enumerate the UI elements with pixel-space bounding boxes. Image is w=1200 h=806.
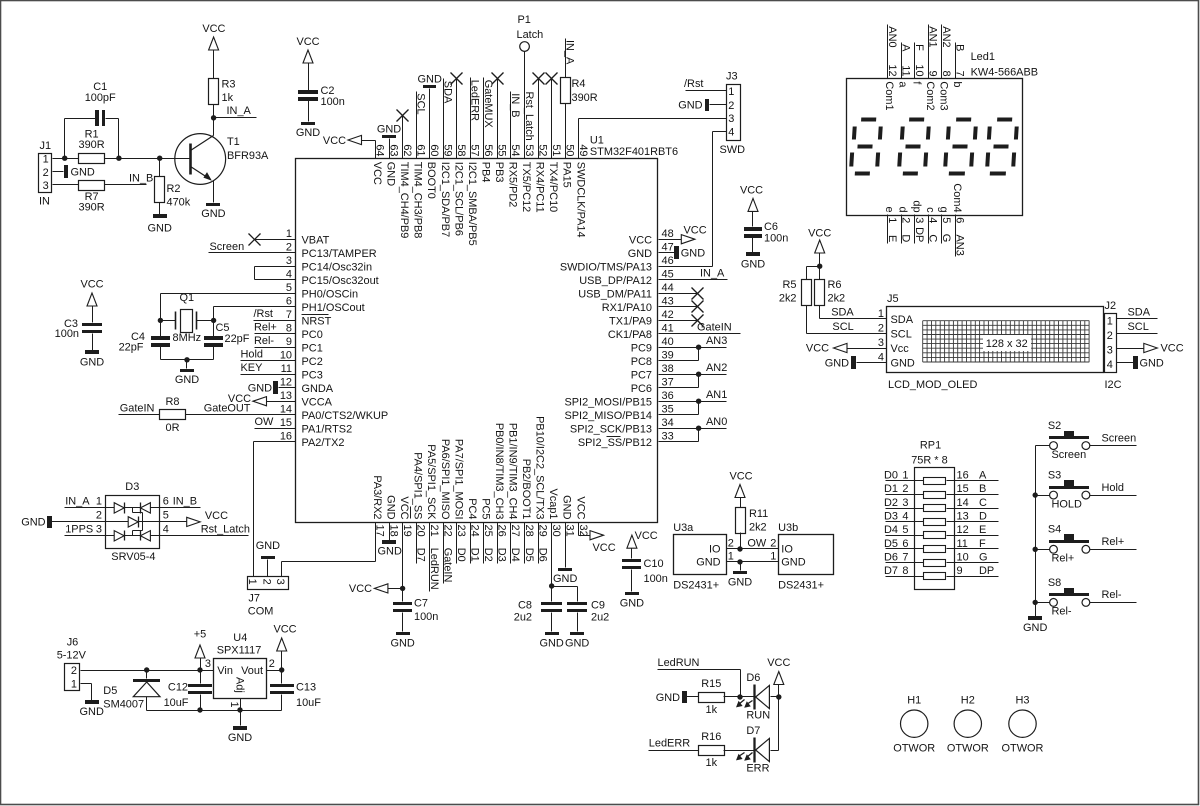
- net SDA wire R6 to J5 pin 1: [820, 306, 887, 319]
- svg-text:2: 2: [899, 217, 911, 223]
- net IN_A stub on U1 pin 45: [659, 267, 728, 279]
- svg-text:1k: 1k: [706, 757, 718, 769]
- ground below R2: [148, 214, 172, 235]
- svg-text:D5: D5: [103, 685, 117, 697]
- svg-text:PB10/I2C2_SCL/TX3: PB10/I2C2_SCL/TX3: [534, 416, 546, 519]
- net LedERR wire: [649, 738, 699, 751]
- svg-text:VCC: VCC: [729, 471, 752, 483]
- svg-text:P1: P1: [518, 14, 531, 26]
- svg-text:7: 7: [286, 309, 292, 321]
- connector J1 IN: [39, 140, 52, 207]
- U1 pin 58 stub with no-connect X: [451, 73, 463, 159]
- svg-text:VBAT: VBAT: [302, 234, 330, 246]
- svg-text:TIM4_CH3/PB8: TIM4_CH3/PB8: [412, 162, 424, 239]
- svg-text:PH0/OSCin: PH0/OSCin: [302, 288, 359, 300]
- wire R15 to D6: [724, 696, 755, 698]
- net D4 stub on U1 pin 27: [509, 523, 521, 564]
- net Hold from S3: [1090, 482, 1137, 496]
- svg-text:SDA: SDA: [1128, 306, 1151, 318]
- svg-text:1: 1: [886, 217, 898, 223]
- net G from Led1 pin 5: [937, 207, 952, 244]
- svg-text:100n: 100n: [414, 611, 438, 623]
- svg-text:PC7: PC7: [631, 369, 652, 381]
- svg-text:D: D: [979, 511, 987, 523]
- svg-text:SDA: SDA: [441, 81, 453, 104]
- svg-text:8: 8: [902, 565, 908, 577]
- svg-text:6: 6: [902, 538, 908, 550]
- svg-text:Rel-: Rel-: [1102, 589, 1122, 601]
- ground into R15: [656, 691, 699, 704]
- RP1 element D4 to E: [884, 524, 998, 538]
- mounting hole H2 OTWOR: [947, 695, 989, 755]
- svg-text:2: 2: [96, 509, 102, 521]
- svg-text:VCC: VCC: [629, 234, 652, 246]
- capacitor C8 2u2: [514, 600, 564, 650]
- svg-text:Adj: Adj: [234, 677, 246, 693]
- ground into J5 pin 4: [825, 356, 887, 369]
- svg-text:IN_A: IN_A: [65, 495, 90, 507]
- svg-text:SCL: SCL: [1128, 321, 1149, 333]
- svg-text:PC14/Osc32in: PC14/Osc32in: [302, 261, 373, 273]
- ground on J1 pin 2: [53, 165, 95, 178]
- power VCC arrow on U1 pin 48: [659, 225, 707, 244]
- U1 bottom pin numbers and names (pins 17-32): [371, 416, 589, 537]
- svg-text:VCC: VCC: [1161, 343, 1184, 355]
- svg-text:LedRUN: LedRUN: [428, 548, 440, 590]
- svg-text:PB2/BOOT1: PB2/BOOT1: [520, 459, 532, 520]
- EEPROM U3b DS2431+: [770, 522, 833, 592]
- svg-text:GND: GND: [296, 127, 320, 139]
- ground on U1 pin 18: [378, 523, 402, 558]
- svg-text:AN0: AN0: [886, 26, 898, 47]
- net DP from Led1 pin 3: [910, 200, 925, 243]
- svg-text:D3: D3: [125, 481, 139, 493]
- svg-text:PC6: PC6: [631, 383, 652, 395]
- svg-text:RX5/PD2: RX5/PD2: [507, 162, 519, 208]
- svg-text:Screen: Screen: [1102, 432, 1137, 444]
- node OW junction: [737, 546, 742, 551]
- wire J6 pin 1 to ground: [81, 684, 92, 701]
- svg-text:GateMUX: GateMUX: [482, 80, 494, 129]
- svg-text:Com2: Com2: [924, 81, 936, 110]
- svg-text:CK1/PA8: CK1/PA8: [608, 329, 652, 341]
- svg-text:GND: GND: [565, 637, 589, 649]
- net Rel- to U1 pin 9: [254, 335, 296, 348]
- svg-text:1: 1: [728, 86, 734, 98]
- net LedRUN stub on U1 pin 21: [428, 523, 440, 592]
- node AN3 junction: [696, 345, 701, 350]
- svg-text:4: 4: [1107, 359, 1113, 371]
- RP1 element D1 to B: [884, 483, 998, 498]
- svg-text:T1: T1: [227, 136, 240, 148]
- svg-text:Hold: Hold: [241, 348, 264, 360]
- svg-text:AN3: AN3: [954, 235, 966, 256]
- net D5 stub on U1 pin 28: [523, 523, 535, 564]
- svg-text:GND: GND: [80, 706, 104, 718]
- U1 pin 62 stub with no-connect X: [397, 110, 409, 159]
- resistor R16 1k: [699, 731, 725, 769]
- svg-text:15: 15: [280, 417, 292, 429]
- net /Rst to U1 pin 7: [254, 308, 296, 321]
- svg-text:/Rst: /Rst: [684, 78, 703, 90]
- svg-text:11: 11: [899, 65, 911, 76]
- svg-text:LedRUN: LedRUN: [658, 657, 700, 669]
- wire J6 pin 2 to U4 Vin: [81, 670, 214, 672]
- svg-text:GND: GND: [21, 517, 45, 529]
- svg-text:I2C: I2C: [1105, 379, 1122, 391]
- svg-text:PC1: PC1: [302, 342, 323, 354]
- svg-text:PA3/RX2: PA3/RX2: [371, 475, 383, 519]
- svg-text:4: 4: [878, 352, 884, 364]
- net Screen to U1 pin 2: [209, 241, 296, 253]
- svg-text:SPI2_SS/PB12: SPI2_SS/PB12: [578, 437, 652, 449]
- svg-text:U3b: U3b: [778, 522, 798, 534]
- svg-text:100n: 100n: [764, 233, 788, 245]
- capacitor C13 10uF: [270, 671, 321, 711]
- net 1PPS into D3 pin 3: [65, 523, 106, 535]
- svg-text:A: A: [899, 44, 911, 52]
- svg-text:S2: S2: [1048, 420, 1061, 432]
- svg-text:2k2: 2k2: [749, 522, 767, 534]
- capacitor C2 100n rail decoupling: [296, 36, 345, 139]
- svg-text:E: E: [886, 235, 898, 242]
- net GateIN stub on U1 pin 41: [659, 321, 741, 333]
- svg-text:2: 2: [770, 538, 776, 550]
- svg-text:GNDA: GNDA: [302, 383, 334, 395]
- net D1 stub on U1 pin 24: [469, 523, 481, 564]
- svg-text:I2C1_SCL/PB6: I2C1_SCL/PB6: [452, 162, 464, 236]
- svg-text:TX5/PC12: TX5/PC12: [520, 162, 532, 212]
- net D from Led1 pin 2: [897, 207, 912, 244]
- svg-text:36: 36: [662, 390, 674, 402]
- resistor R7 390R: [79, 181, 105, 214]
- display Led1 KW4-566ABB body: [847, 51, 1039, 216]
- net IN_A stub at T1 collector: [214, 105, 257, 117]
- power +5 arrow at U4 input: [194, 628, 206, 670]
- svg-text:DS2431+: DS2431+: [673, 580, 719, 592]
- svg-text:R3: R3: [222, 78, 236, 90]
- net AN0 from U1 pins 34 and 33: [659, 416, 728, 442]
- svg-text:IO: IO: [781, 544, 793, 556]
- svg-text:SPI2_MOSI/PB15: SPI2_MOSI/PB15: [564, 396, 652, 408]
- svg-text:11: 11: [281, 363, 292, 375]
- svg-text:2: 2: [261, 579, 273, 585]
- resistor network RP1 75R*8 body: [911, 440, 954, 590]
- ground on J3 pin 2: [678, 99, 726, 112]
- wire C1 left leg: [65, 119, 96, 159]
- MCU U1 STM32F401RBT6 body: [296, 135, 679, 523]
- net Rel+ to U1 pin 8: [254, 321, 296, 333]
- svg-text:VCC: VCC: [808, 228, 831, 240]
- svg-text:R16: R16: [701, 731, 721, 743]
- svg-text:1: 1: [71, 678, 77, 690]
- capacitor C10 100n: [620, 530, 668, 610]
- svg-text:Rel+: Rel+: [1052, 553, 1075, 565]
- net A into Led1 pin 11: [897, 43, 912, 89]
- RP1 element D2 to C: [884, 497, 998, 512]
- power VCC above R11: [729, 471, 752, 509]
- svg-text:33: 33: [662, 431, 674, 443]
- net D7 stub on U1 pin 20: [414, 523, 426, 564]
- svg-text:2: 2: [728, 538, 734, 550]
- svg-text:AN3: AN3: [706, 335, 727, 347]
- node C7 junction: [400, 586, 405, 591]
- node D5 top junction: [144, 667, 149, 672]
- wire U1 pin 16 to J7 pin 1: [254, 442, 296, 577]
- svg-text:34: 34: [662, 417, 674, 429]
- svg-text:D3: D3: [496, 548, 508, 562]
- svg-text:22pF: 22pF: [119, 342, 144, 354]
- svg-text:IN_A: IN_A: [564, 40, 576, 65]
- svg-text:D2: D2: [482, 548, 494, 562]
- power VCC above R3: [202, 23, 225, 79]
- svg-text:16: 16: [957, 470, 969, 482]
- svg-text:GND: GND: [656, 692, 680, 704]
- svg-text:6: 6: [954, 217, 966, 223]
- svg-text:Rst_Latch: Rst_Latch: [523, 92, 535, 141]
- U1 pin 1 stub wire with no-connect X: [249, 234, 296, 246]
- wire T1 collector to IN_A node: [213, 118, 215, 136]
- svg-text:S8: S8: [1048, 577, 1061, 589]
- svg-text:PC3: PC3: [302, 369, 323, 381]
- svg-text:10: 10: [913, 64, 925, 76]
- net SCL from J2 pin 2: [1117, 321, 1158, 334]
- svg-text:4: 4: [286, 269, 292, 281]
- svg-text:VCC: VCC: [296, 36, 319, 48]
- svg-text:GND: GND: [681, 248, 705, 260]
- svg-text:13: 13: [957, 511, 969, 523]
- svg-text:D6: D6: [746, 672, 760, 684]
- D3 internal diodes: [106, 503, 161, 542]
- net AN1 into Led1 pin 9: [924, 25, 939, 111]
- svg-text:48: 48: [662, 228, 674, 240]
- svg-text:4: 4: [728, 127, 734, 139]
- RP1 element D3 to D: [884, 511, 998, 526]
- svg-text:100n: 100n: [321, 96, 345, 108]
- svg-text:3: 3: [913, 217, 925, 223]
- wire U1 pin 17 to J7 pin 3: [282, 523, 376, 577]
- svg-text:E: E: [979, 524, 986, 536]
- svg-text:C13: C13: [296, 682, 316, 694]
- svg-text:OTWOR: OTWOR: [893, 743, 935, 755]
- svg-text:GND: GND: [248, 383, 272, 395]
- wire R3 to collector node: [213, 105, 215, 118]
- svg-text:PC5: PC5: [479, 498, 491, 519]
- svg-text:2: 2: [902, 483, 908, 495]
- svg-text:PA15: PA15: [561, 162, 573, 188]
- svg-text:TX4/PC10: TX4/PC10: [547, 162, 559, 212]
- resistor R3 1k: [209, 78, 236, 104]
- node S4 common junction: [1033, 547, 1038, 552]
- svg-text:GateOUT: GateOUT: [204, 402, 251, 414]
- svg-text:10uF: 10uF: [296, 697, 321, 709]
- svg-text:45: 45: [662, 269, 674, 281]
- svg-text:1PPS: 1PPS: [65, 523, 93, 535]
- svg-text:SDA: SDA: [831, 306, 854, 318]
- wire R11 to OW node: [740, 533, 742, 549]
- net Rst_Latch from D3 pin 4: [161, 523, 250, 535]
- svg-text:9: 9: [957, 565, 963, 577]
- svg-text:SDA: SDA: [891, 314, 914, 326]
- svg-text:42: 42: [662, 309, 674, 321]
- svg-text:VCC: VCC: [371, 162, 383, 185]
- svg-text:GND: GND: [201, 208, 225, 220]
- svg-text:2k2: 2k2: [828, 292, 846, 304]
- svg-text:6: 6: [163, 495, 169, 507]
- capacitor C4 22pF: [119, 331, 170, 353]
- svg-text:C: C: [927, 234, 939, 242]
- svg-text:NRST: NRST: [302, 315, 332, 327]
- svg-text:D4: D4: [509, 548, 521, 562]
- svg-text:AN1: AN1: [927, 26, 939, 47]
- net E from Led1 pin 1: [883, 207, 898, 244]
- svg-text:VCC: VCC: [593, 542, 616, 554]
- net SDA from J2 pin 1: [1117, 306, 1158, 318]
- net AN0 into Led1 pin 12: [883, 25, 898, 111]
- net OW wire U3a pin 2 to U3b pin 2: [727, 538, 779, 550]
- net Screen from S2: [1090, 432, 1137, 445]
- net B into Led1 pin 7: [951, 43, 966, 88]
- resistor R5 2k2: [779, 279, 812, 306]
- net LedRUN wire: [658, 657, 741, 697]
- svg-text:PA6/SPI1_MISO: PA6/SPI1_MISO: [439, 439, 451, 520]
- svg-text:VCC: VCC: [80, 279, 103, 291]
- svg-text:J2: J2: [1105, 300, 1117, 312]
- net IN_A wire above R4 to U1 pin 50: [564, 39, 576, 159]
- svg-text:15: 15: [957, 483, 969, 495]
- svg-text:SCL: SCL: [891, 329, 912, 341]
- net KEY to U1 pin 11: [241, 362, 296, 375]
- net Rst_Latch wire P1 to U1 pin 53: [523, 52, 535, 159]
- svg-text:SWDIO/TMS/PA13: SWDIO/TMS/PA13: [560, 261, 652, 273]
- svg-text:GateIN: GateIN: [120, 402, 155, 414]
- svg-text:TIM4_CH4/PB9: TIM4_CH4/PB9: [398, 162, 410, 239]
- svg-text:VCC: VCC: [684, 225, 707, 237]
- svg-text:8: 8: [286, 323, 292, 335]
- svg-text:I2C1_SDA/PB7: I2C1_SDA/PB7: [439, 162, 451, 237]
- mounting hole H1 OTWOR: [893, 695, 935, 755]
- svg-text:ERR: ERR: [746, 763, 769, 775]
- svg-text:GND: GND: [825, 357, 849, 369]
- svg-text:PA1/RTS2: PA1/RTS2: [302, 423, 353, 435]
- svg-text:5: 5: [902, 524, 908, 536]
- svg-text:C10: C10: [644, 558, 664, 570]
- wire U1 pin 5 to crystal left node: [161, 294, 296, 337]
- U1 pin 43 stub with no-connect X: [659, 301, 704, 313]
- svg-text:R4: R4: [572, 78, 586, 90]
- svg-text:c: c: [924, 207, 936, 213]
- svg-text:38: 38: [662, 363, 674, 375]
- resistor R2 470k: [155, 177, 191, 209]
- ground on U1 pin 31: [553, 523, 577, 585]
- svg-text:SPI2_MISO/PB14: SPI2_MISO/PB14: [564, 410, 652, 422]
- net D2 stub on U1 pin 25: [482, 523, 494, 564]
- ground for crystal: [175, 369, 199, 386]
- node AN2 junction: [696, 372, 701, 377]
- svg-text:SM4007: SM4007: [103, 698, 144, 710]
- svg-text:DS2431+: DS2431+: [778, 580, 824, 592]
- mounting hole H3 OTWOR: [1002, 695, 1044, 755]
- svg-text:GND: GND: [553, 573, 577, 585]
- svg-text:SWDCLK/PA14: SWDCLK/PA14: [574, 162, 586, 238]
- svg-text:10: 10: [280, 350, 292, 362]
- wire R16 to D7: [724, 750, 755, 752]
- svg-text:OW: OW: [747, 538, 767, 550]
- svg-text:HOLD: HOLD: [1052, 498, 1082, 510]
- svg-text:Led1: Led1: [971, 51, 995, 63]
- svg-text:USB_DP/PA12: USB_DP/PA12: [579, 275, 652, 287]
- svg-text:Rel+: Rel+: [1102, 536, 1125, 548]
- svg-text:9: 9: [927, 71, 939, 77]
- svg-text:3: 3: [43, 180, 49, 192]
- svg-text:AN2: AN2: [706, 362, 727, 374]
- svg-text:2u2: 2u2: [591, 611, 609, 623]
- wire T1 emitter to ground: [213, 181, 215, 203]
- LED D7 ERR: [736, 697, 779, 775]
- svg-text:GND: GND: [620, 598, 644, 610]
- svg-text:D6: D6: [884, 551, 898, 563]
- svg-text:AN1: AN1: [706, 389, 727, 401]
- node R2 base junction: [157, 156, 162, 161]
- svg-text:BOOT0: BOOT0: [425, 162, 437, 199]
- svg-text:1: 1: [96, 495, 102, 507]
- svg-text:+5: +5: [194, 628, 206, 640]
- svg-text:KW4-566ABB: KW4-566ABB: [971, 67, 1038, 79]
- RP1 element D0 to A: [884, 470, 998, 485]
- svg-text:U3a: U3a: [673, 522, 694, 534]
- svg-text:R8: R8: [166, 396, 180, 408]
- net Vcap1 node on U1 pin 30: [552, 523, 578, 602]
- capacitor C3 100n rail decoupling: [55, 279, 105, 369]
- net GateIN stub on U1 pin 22: [441, 523, 453, 584]
- svg-text:4: 4: [927, 217, 939, 223]
- svg-text:128 x 32: 128 x 32: [986, 338, 1028, 350]
- svg-text:14: 14: [280, 404, 292, 416]
- svg-text:1: 1: [246, 579, 258, 585]
- node Vcap1 junction: [549, 583, 554, 588]
- svg-text:2: 2: [43, 167, 49, 179]
- U1 pin 52 stub with no-connect X: [533, 73, 545, 159]
- svg-text:Latch: Latch: [517, 29, 544, 41]
- svg-text:R5: R5: [783, 279, 797, 291]
- net SCL wire R5 to J5 pin 2: [807, 306, 887, 334]
- svg-text:A: A: [979, 470, 987, 482]
- node IN_A junction: [211, 115, 216, 120]
- svg-text:RX1/PA10: RX1/PA10: [602, 302, 652, 314]
- svg-text:Screen: Screen: [1052, 449, 1087, 461]
- svg-text:COM: COM: [248, 605, 274, 617]
- ground on J7 pin 2: [256, 540, 280, 577]
- svg-text:D5: D5: [523, 548, 535, 562]
- node crystal left junction: [158, 318, 163, 323]
- svg-text:D7: D7: [414, 548, 426, 562]
- ground from J2 pin 4: [1117, 356, 1164, 369]
- svg-text:f: f: [910, 81, 922, 85]
- U1 top pin numbers and names (pins 64-49): [371, 144, 589, 245]
- svg-text:1: 1: [228, 702, 240, 708]
- resistor R1 390R: [79, 129, 105, 164]
- node S8 common junction: [1033, 600, 1038, 605]
- svg-text:PC9: PC9: [631, 342, 652, 354]
- svg-text:J5: J5: [887, 293, 899, 305]
- svg-text:GND: GND: [390, 637, 414, 649]
- U1 pin 42 stub with no-connect X: [659, 315, 704, 327]
- svg-text:G: G: [979, 551, 988, 563]
- svg-text:GND: GND: [1023, 622, 1047, 634]
- node R1 C1 junction: [116, 156, 121, 161]
- svg-text:2: 2: [728, 100, 734, 112]
- svg-text:VCC: VCC: [205, 510, 228, 522]
